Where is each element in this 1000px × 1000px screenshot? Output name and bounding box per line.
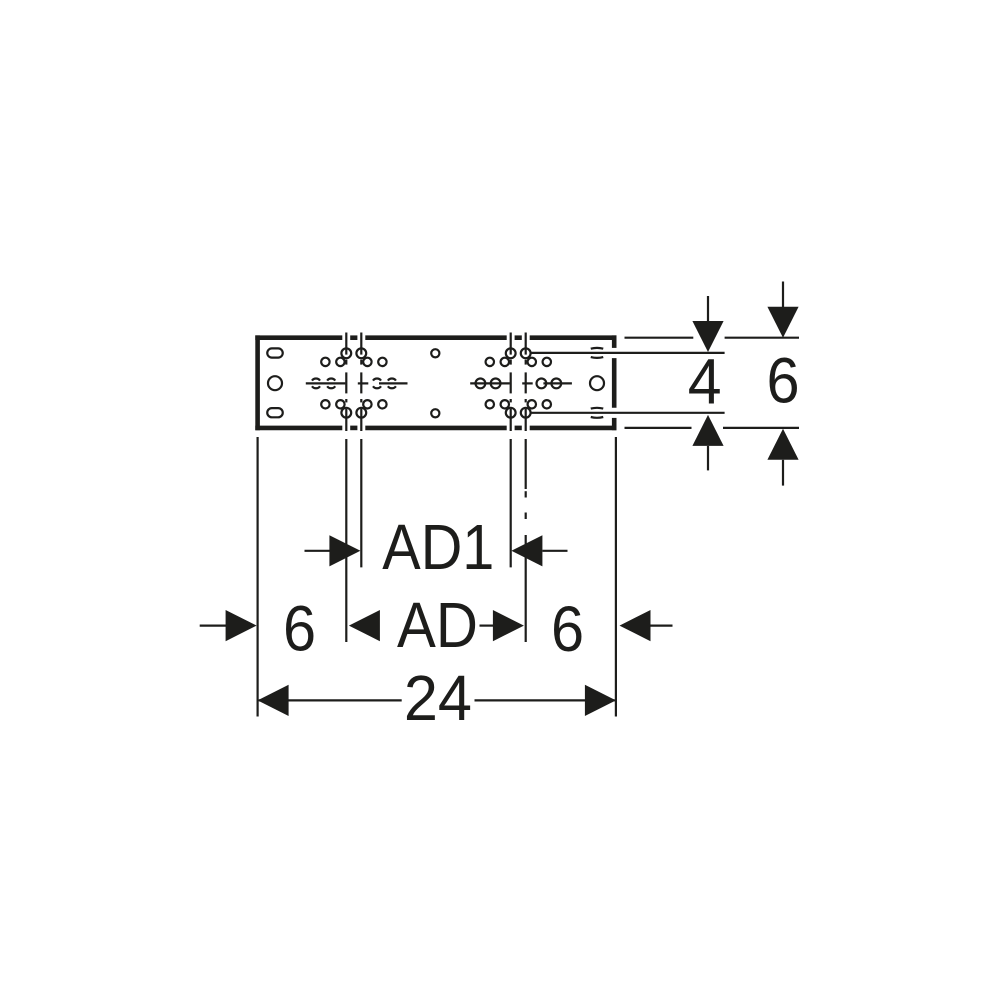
svg-text:4: 4: [688, 346, 722, 418]
svg-text:6: 6: [766, 345, 799, 416]
svg-text:6: 6: [283, 594, 316, 665]
svg-text:24: 24: [404, 663, 472, 735]
svg-text:6: 6: [551, 594, 584, 665]
svg-text:AD: AD: [397, 589, 478, 660]
svg-text:AD1: AD1: [382, 511, 494, 582]
